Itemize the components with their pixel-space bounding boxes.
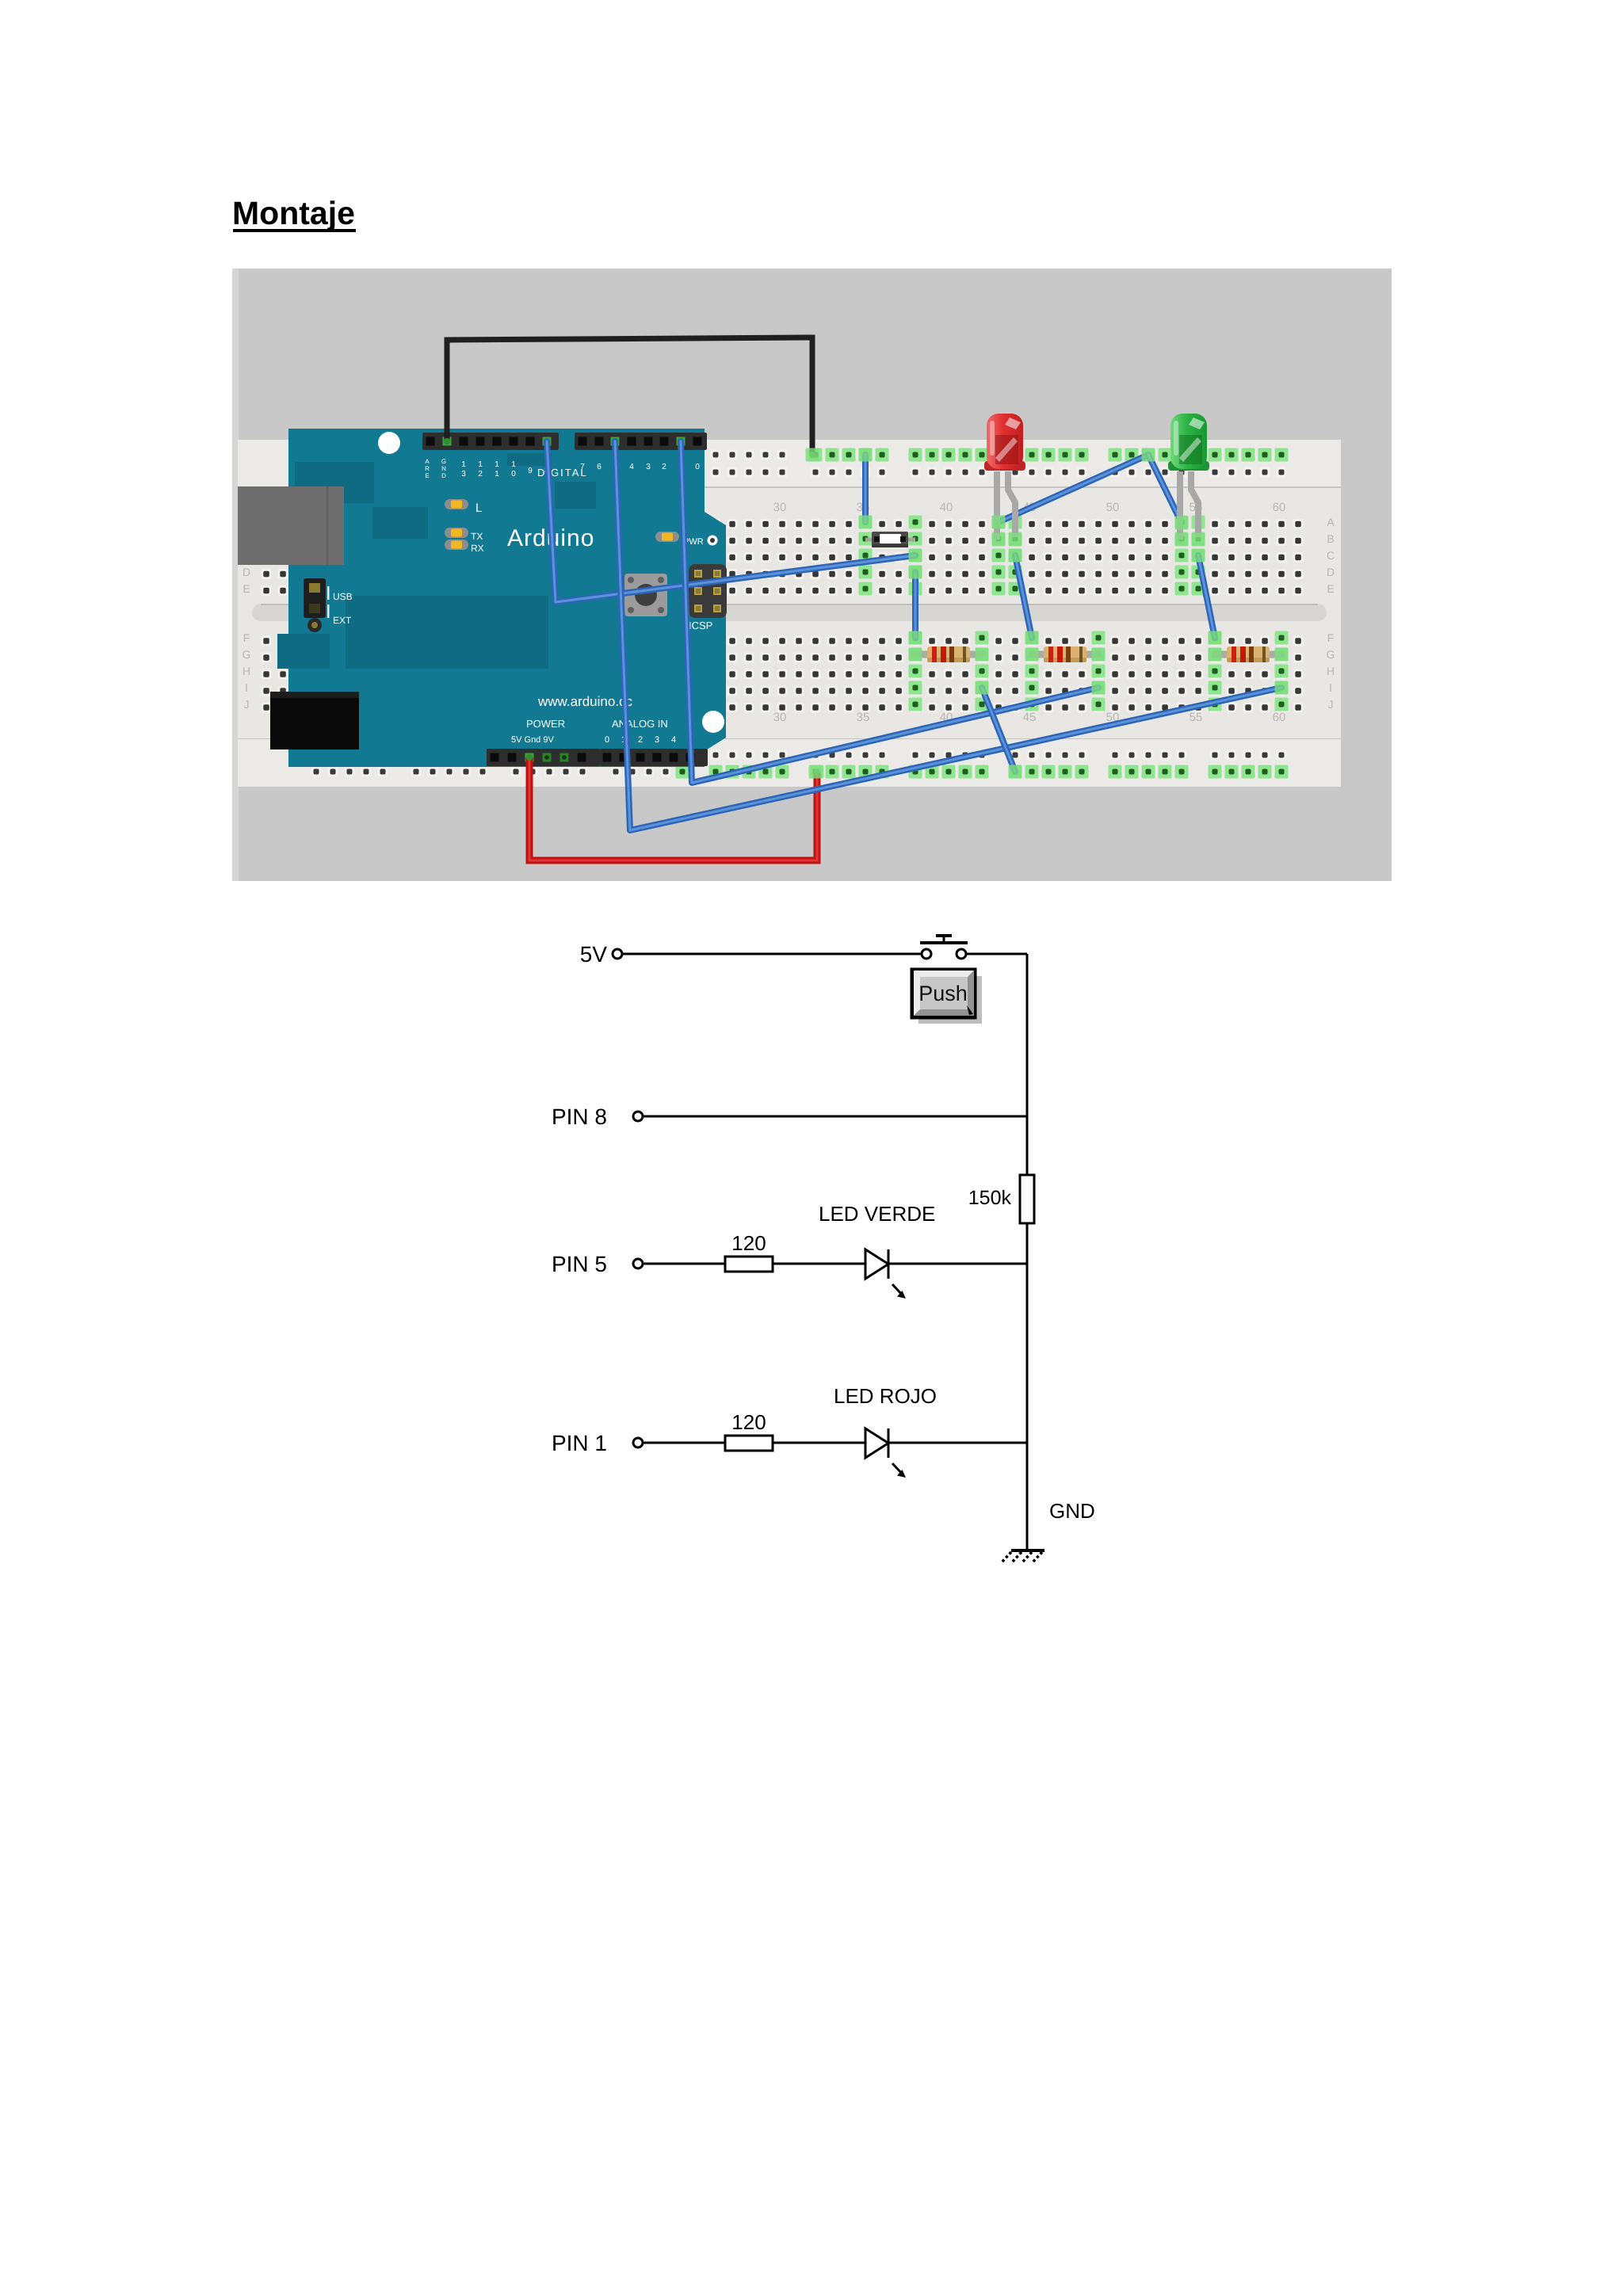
Arduino mounting holes [378, 432, 400, 454]
svg-text:F: F [243, 631, 250, 644]
svg-text:www.arduino.cc: www.arduino.cc [537, 694, 633, 709]
blue wire: red LED column row C to row F [1015, 555, 1032, 638]
PIN 8 wire [633, 1112, 643, 1121]
svg-text:2: 2 [478, 470, 483, 479]
USB connector [238, 486, 344, 565]
svg-text:J: J [1328, 698, 1334, 711]
svg-text:B: B [1327, 532, 1334, 545]
blue wire: Arduino pin 5 to column 62 row I [615, 441, 1281, 830]
svg-text:C: C [1327, 549, 1335, 562]
svg-text:5V: 5V [580, 942, 608, 967]
svg-text:Push: Push [918, 982, 968, 1005]
Arduino board U1 [238, 429, 727, 767]
svg-text:USB: USB [333, 591, 353, 602]
blue wire: Arduino pin 1 to column 51 row I [681, 441, 1098, 783]
svg-text:R: R [425, 465, 430, 472]
svg-text:55: 55 [1190, 711, 1203, 724]
svg-text:E: E [242, 582, 250, 595]
green connected header pins [443, 437, 452, 446]
svg-text:0: 0 [605, 735, 609, 745]
svg-text:POWER: POWER [526, 718, 565, 730]
bottom power rail holes [311, 750, 1287, 777]
ground symbol [1011, 1549, 1044, 1552]
svg-text:5V Gnd 9V: 5V Gnd 9V [511, 735, 554, 745]
svg-text:GND: GND [1049, 1499, 1095, 1523]
green highlighted columns, top half [859, 516, 1205, 596]
svg-text:RX: RX [471, 543, 484, 554]
svg-text:D: D [441, 472, 446, 479]
ICSP header [689, 564, 727, 618]
svg-text:G: G [242, 648, 251, 661]
svg-text:F: F [1327, 631, 1335, 644]
breadboard photo background [232, 269, 1392, 881]
main grid holes top half rows A-E [258, 514, 1307, 597]
svg-text:0: 0 [695, 463, 700, 471]
svg-text:TX: TX [471, 531, 483, 542]
resistor R2 120 (red LED) [1029, 651, 1102, 658]
reset button on Arduino [624, 574, 667, 616]
svg-text:1: 1 [511, 460, 516, 469]
breadboard column number labels [773, 501, 1286, 724]
schematic diagram [613, 936, 1044, 1563]
green LED D2 on breadboard [1177, 471, 1183, 540]
svg-text:40: 40 [940, 501, 953, 514]
svg-text:E: E [425, 472, 429, 479]
LED ROJO symbol [865, 1428, 888, 1458]
USB/EXT selection jumper [304, 578, 326, 618]
svg-text:1: 1 [495, 460, 499, 469]
blue wire: Arduino pin 8 to column 40 row C [547, 441, 915, 602]
svg-text:0: 0 [511, 470, 516, 479]
schematic labels [552, 942, 1095, 1523]
svg-text:60: 60 [1273, 711, 1286, 724]
green highlighted pads on top rail (ground bus) [809, 448, 1289, 462]
Push button graphic [918, 976, 982, 1024]
svg-text:ANALOG IN: ANALOG IN [612, 718, 668, 730]
svg-text:150k: 150k [968, 1187, 1012, 1209]
top power rail holes [311, 450, 1287, 478]
breadboard center groove [252, 604, 1327, 621]
svg-text:J: J [244, 698, 250, 711]
svg-text:2: 2 [638, 735, 643, 745]
blue wire: top rail to green LED column row A [1148, 455, 1182, 523]
breadboard row letters [242, 516, 1335, 711]
svg-text:L: L [475, 502, 482, 515]
resistor 150k symbol [1020, 1175, 1034, 1223]
blue wire: top rail to red LED column row A [999, 455, 1148, 522]
indicator LEDs L TX RX PWR [445, 499, 468, 509]
blue wire: column 44 row I to bottom rail [982, 688, 1015, 772]
svg-text:H: H [242, 665, 250, 677]
svg-text:PIN 1: PIN 1 [552, 1431, 607, 1455]
svg-text:4: 4 [629, 463, 634, 471]
resistor R3 120 (green LED) [1212, 651, 1285, 658]
svg-text:1: 1 [461, 460, 466, 469]
svg-text:I: I [245, 681, 248, 694]
svg-text:E: E [1327, 582, 1334, 595]
svg-text:D: D [1327, 566, 1335, 578]
main grid holes bottom half rows F-J [258, 630, 1307, 713]
svg-text:I: I [1329, 681, 1332, 694]
svg-text:D: D [242, 566, 250, 578]
svg-text:120: 120 [731, 1231, 766, 1255]
svg-text:A: A [1327, 516, 1335, 528]
svg-text:120: 120 [731, 1410, 766, 1434]
power jack [270, 692, 359, 749]
svg-text:3: 3 [655, 735, 659, 745]
svg-text:30: 30 [773, 711, 787, 724]
svg-text:Montaje: Montaje [232, 195, 355, 231]
green highlighted columns, bottom half [909, 631, 1289, 711]
svg-text:G: G [441, 458, 446, 465]
svg-text:1: 1 [495, 470, 499, 479]
node: main vertical bus to GND [1026, 954, 1029, 1550]
svg-text:7: 7 [580, 463, 585, 471]
red LED D1 on breadboard [994, 471, 1000, 540]
svg-text:3: 3 [461, 470, 466, 479]
svg-text:PIN 5: PIN 5 [552, 1252, 607, 1276]
Arduino silkscreen texts [333, 458, 712, 745]
black wire: Arduino GND to top rail [447, 338, 812, 455]
blue wire: green LED column row C to row F [1198, 555, 1215, 638]
resistor R1 150k (button pull-down) [912, 651, 985, 658]
LED VERDE symbol [865, 1249, 888, 1279]
svg-text:30: 30 [773, 501, 787, 514]
svg-text:50: 50 [1106, 501, 1120, 514]
digital pin header strip 1 (AREF GND 13-8) [422, 433, 559, 450]
terminal 5V [613, 949, 622, 959]
net 5V wire [623, 953, 922, 955]
green highlighted pads on bottom rail (5V bus) [676, 765, 1289, 779]
analog header strip (bottom) [600, 749, 708, 766]
svg-text:3: 3 [646, 463, 651, 471]
digital pin header strip 2 (7-0) [575, 433, 707, 450]
breadboard base [238, 440, 1341, 787]
svg-text:G: G [1327, 648, 1335, 661]
svg-text:1: 1 [478, 460, 483, 469]
svg-text:H: H [1327, 665, 1335, 677]
svg-text:60: 60 [1273, 501, 1286, 514]
svg-text:4: 4 [671, 735, 676, 745]
svg-text:35: 35 [857, 711, 870, 724]
PIN 5 wire and resistor 120 [633, 1259, 643, 1268]
svg-text:9: 9 [528, 467, 533, 475]
pushbutton S1 on breadboard [865, 538, 915, 542]
green pad overlays on wire endpoints [806, 448, 1289, 779]
PIN 1 wire and resistor 120 [633, 1438, 643, 1447]
svg-text:N: N [441, 465, 446, 472]
blue wire: column 40 row D to row F across groove [912, 572, 918, 638]
svg-text:LED VERDE: LED VERDE [819, 1202, 935, 1226]
pushbutton switch symbol [922, 949, 931, 959]
svg-text:6: 6 [597, 463, 601, 471]
power header strip (bottom) [487, 749, 600, 766]
svg-text:45: 45 [1023, 711, 1037, 724]
svg-text:LED ROJO: LED ROJO [834, 1384, 937, 1408]
blue wire: top rail to column 37 row A (button) [862, 455, 869, 522]
svg-text:PIN 8: PIN 8 [552, 1104, 607, 1129]
red wire: Arduino 5V to bottom rail [529, 757, 817, 860]
svg-text:2: 2 [662, 463, 666, 471]
svg-text:ICSP: ICSP [689, 620, 712, 631]
svg-text:A: A [425, 458, 430, 465]
svg-text:EXT: EXT [333, 615, 352, 626]
